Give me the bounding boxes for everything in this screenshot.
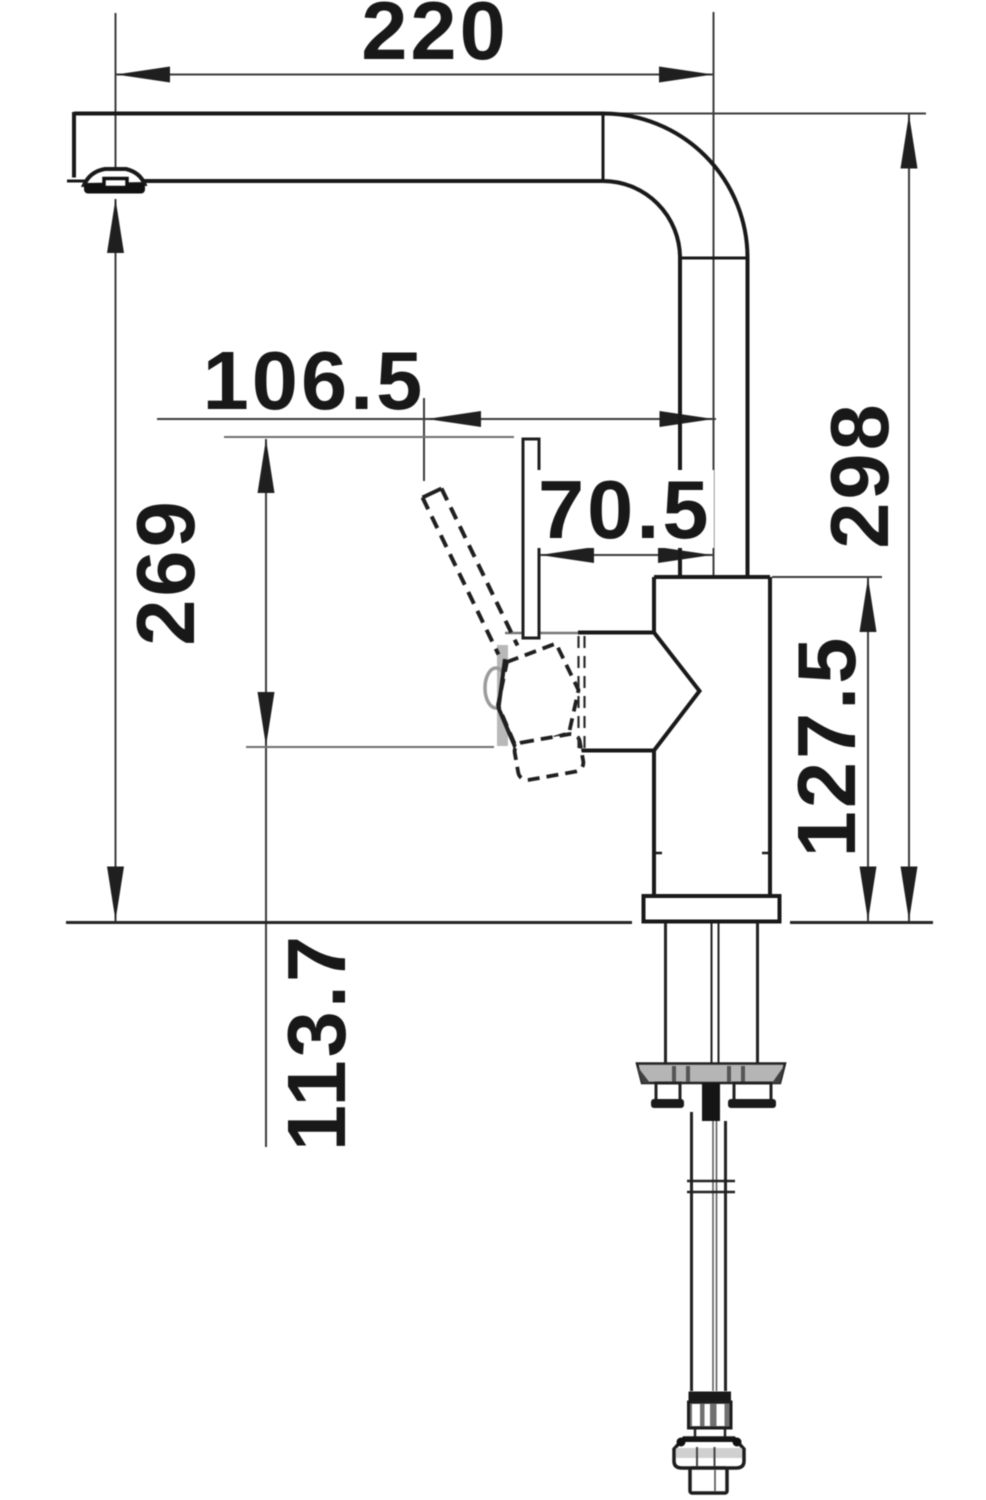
stud inner line a [712, 1121, 714, 1391]
coupling tick lower [687, 1191, 735, 1194]
dimension line 113.7 [265, 439, 267, 1147]
body set screw nub right [762, 852, 770, 855]
countertop line right [790, 921, 933, 924]
aerator face band [84, 184, 145, 194]
lever tip cap [423, 489, 442, 498]
cartridge hidden line [577, 636, 579, 748]
body left edge upper [652, 577, 656, 633]
arrow 298 up [901, 115, 918, 169]
handle pivot circle [485, 668, 507, 708]
arrow 298 down [901, 867, 918, 921]
arrow 127.5 down [860, 867, 877, 921]
barrel slot 1 [692, 1404, 700, 1426]
plate notch 4 [741, 1066, 745, 1082]
spout top edge and outer bend [74, 114, 748, 259]
arrow 70.5 right [658, 547, 712, 563]
arrow 106.5 right [660, 411, 714, 427]
svg-text:106.5: 106.5 [203, 334, 426, 427]
dimension line 269 [115, 199, 117, 921]
bend seam lower [680, 257, 748, 260]
countertop line left [66, 921, 632, 924]
extension line handle bottom y=747 [246, 746, 494, 748]
body left edge lower [652, 751, 656, 897]
bend seam upper [602, 114, 605, 182]
flare inner line 2 [714, 1447, 716, 1466]
extension line pipe axis x=713.5 [713, 12, 715, 577]
coupling tick upper [687, 1180, 735, 1183]
base flange [644, 896, 780, 922]
spout bottom edge and inner bend [140, 181, 680, 258]
bottom nut inner line [714, 1470, 716, 1491]
mounting plate left cap [637, 1066, 650, 1083]
plate notch 3 [727, 1066, 731, 1082]
mounting plate [637, 1064, 785, 1084]
dimension line 127.5 [867, 578, 869, 921]
dimension line 220 [116, 74, 713, 76]
arrow 70.5 left [540, 547, 594, 563]
plate notch 1 [672, 1066, 676, 1082]
spout end face [72, 112, 76, 178]
flare inner line 1 [696, 1447, 698, 1466]
stud right edge [724, 1121, 727, 1391]
svg-text:127.5: 127.5 [780, 635, 873, 858]
barrel slot 3 [717, 1404, 725, 1426]
dimension line 298 [908, 115, 910, 922]
stud inner line b [716, 1121, 718, 1391]
svg-text:113.7: 113.7 [270, 933, 363, 1151]
body set screw nub left [654, 852, 662, 855]
bracket left foot [651, 1099, 684, 1108]
bottom nut [690, 1468, 727, 1493]
arrow 269 down [107, 867, 124, 921]
aerator dome [84, 169, 145, 185]
shank right edge [756, 923, 759, 1064]
flare body [674, 1438, 744, 1468]
svg-text:70.5: 70.5 [538, 463, 712, 556]
flare corner right [733, 1438, 742, 1447]
lever upper edge [442, 489, 518, 646]
flare corner left [677, 1438, 686, 1447]
arrow 113.7 down [258, 692, 275, 746]
arrow 113.7 up [258, 439, 275, 493]
shank left edge [664, 923, 667, 1064]
lever rod [523, 439, 539, 638]
shank inner stud line left [711, 923, 713, 1064]
svg-text:269: 269 [119, 498, 212, 645]
lever lower edge [423, 498, 499, 655]
extension line rod top y=437 [224, 436, 514, 438]
arrow 269 up [107, 199, 124, 253]
arrow 106.5 left [427, 411, 481, 427]
shank inner stud line right [718, 923, 720, 1064]
bracket right leg [734, 1083, 771, 1102]
extension line aerator axis x=115.5 [115, 13, 117, 169]
arrow 220 right [659, 67, 713, 83]
spout underside stub [67, 180, 90, 183]
handle gray gap strip [497, 645, 508, 746]
stud left edge [690, 1112, 693, 1391]
svg-text:298: 298 [813, 401, 906, 548]
handle hub lower cap [513, 733, 585, 782]
handle wedge [578, 633, 700, 751]
vertical pipe right edge [746, 258, 750, 577]
neck left [694, 1428, 697, 1438]
extension line body top y=577 [772, 576, 882, 578]
plate notch 2 [686, 1066, 690, 1082]
body right edge [768, 577, 772, 896]
dimension line 106.5 [157, 418, 716, 420]
halo behind 70.5 [536, 470, 714, 548]
lock nut top band [689, 1392, 732, 1403]
mounting plate right cap [772, 1066, 784, 1083]
svg-text:220: 220 [361, 0, 508, 77]
handle hub pentagon [498, 644, 579, 750]
aerator insert [104, 179, 127, 188]
flare gray band [676, 1448, 742, 1458]
extension line lever tip x=424 [423, 398, 425, 481]
dimension line 70.5 [540, 554, 713, 556]
extension line hub joint y=633 [505, 632, 578, 635]
body top edge [654, 575, 770, 579]
neck right [724, 1428, 727, 1438]
bracket left leg [656, 1083, 680, 1102]
stud black section [702, 1083, 720, 1121]
barrel slot 2 [705, 1404, 711, 1426]
arrow 220 left [116, 67, 170, 83]
bracket right foot [728, 1099, 776, 1108]
knurled barrel [689, 1402, 732, 1428]
arrow 127.5 up [860, 578, 877, 632]
vertical pipe left edge [678, 258, 682, 577]
handle hub left solid edge [499, 659, 517, 749]
extension line spout top right y=113.5 [605, 113, 926, 115]
